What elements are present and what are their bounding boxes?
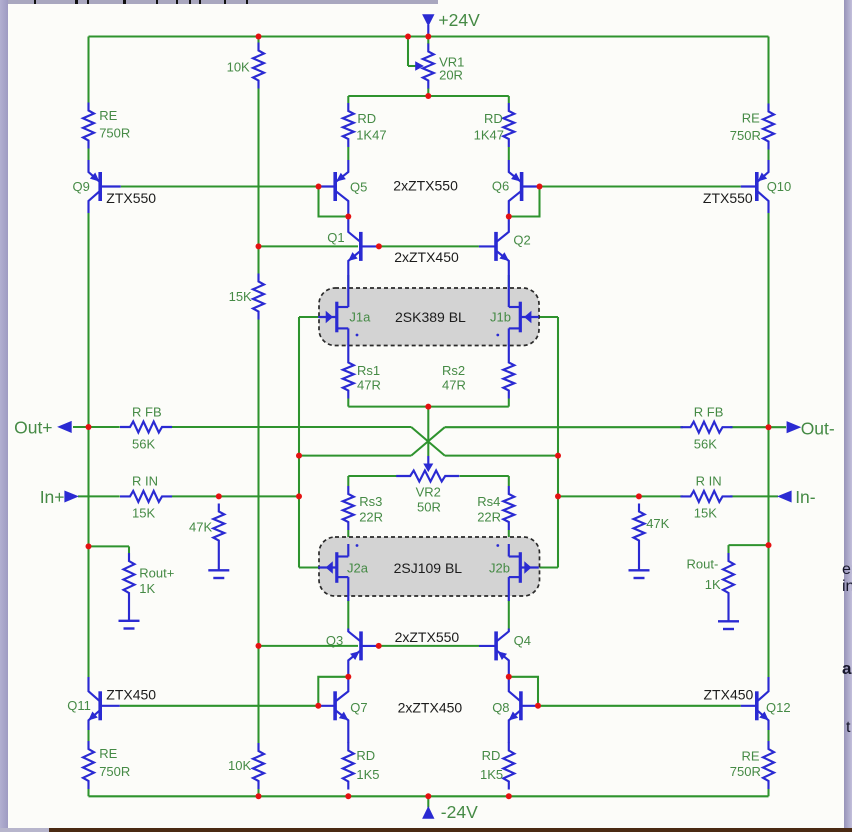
node Q4 emitter / Q8 bbox=[506, 674, 512, 680]
wire VR2 left corner down to Rs3 bbox=[347, 476, 349, 486]
wire VR1 top stub bbox=[427, 37, 429, 45]
wire Rout- down bbox=[727, 545, 729, 553]
resistor R FB 56K right bbox=[681, 422, 733, 433]
wire J2b gate bbox=[539, 566, 559, 568]
svg-text:Q2: Q2 bbox=[513, 233, 530, 248]
svg-text:ZTX450: ZTX450 bbox=[704, 687, 754, 703]
node Rs rail center bbox=[425, 404, 431, 410]
wire J1b gate bbox=[539, 316, 559, 318]
node bottom rail / -24V bbox=[425, 793, 431, 799]
svg-text:Q7: Q7 bbox=[350, 700, 367, 715]
wire Q1 emitter to J1a bbox=[347, 275, 349, 290]
svg-text:Q10: Q10 bbox=[767, 179, 792, 194]
wire gate column right x=558 bbox=[557, 317, 559, 568]
resistor Rs3 22R bbox=[343, 486, 354, 530]
wire Q11 base to Q7 base bbox=[120, 705, 319, 707]
node rail2 / VR1 bottom bbox=[425, 93, 431, 99]
svg-text:47R: 47R bbox=[442, 378, 466, 393]
ground 47K left bbox=[208, 569, 229, 571]
resistor Rout- 1K bbox=[723, 553, 734, 601]
wire right rail RE-Q10 bbox=[767, 150, 769, 161]
svg-text:Rout-: Rout- bbox=[687, 557, 719, 572]
wire bottom -24V rail bbox=[89, 795, 769, 797]
wire RD-R top stub bbox=[508, 96, 510, 103]
svg-text:1K: 1K bbox=[139, 581, 155, 596]
svg-text:2xZTX550: 2xZTX550 bbox=[395, 629, 460, 645]
svg-text:20R: 20R bbox=[439, 68, 463, 83]
wire left rail Q9-Out+ bbox=[87, 213, 89, 427]
J1a substrate dot bbox=[356, 334, 359, 337]
svg-text:Q11: Q11 bbox=[67, 698, 91, 713]
potentiometer VR1 20R bbox=[423, 44, 434, 89]
svg-text:10K: 10K bbox=[227, 60, 250, 75]
svg-text:R IN: R IN bbox=[696, 474, 722, 489]
wire junction to 15K bbox=[257, 246, 259, 273]
node Q3 base bbox=[376, 643, 382, 649]
wire right rail upper bbox=[767, 37, 769, 104]
resistor RE 750R top-left bbox=[83, 103, 94, 149]
potentiometer VR2 50R bbox=[396, 471, 459, 482]
wire left rail Out+ - Rout+ bbox=[87, 427, 89, 546]
svg-text:+24V: +24V bbox=[438, 10, 480, 30]
node In- / 47K bbox=[636, 493, 642, 499]
port arrow In- bbox=[778, 491, 792, 502]
JFET J2b bbox=[519, 552, 522, 583]
wire RFB right to Out- bbox=[730, 426, 786, 428]
svg-text:Q6: Q6 bbox=[492, 179, 509, 194]
wire J2a gate bbox=[299, 566, 319, 568]
resistor 10K bottom bbox=[253, 743, 264, 789]
svg-text:15K: 15K bbox=[694, 506, 717, 521]
wire VR2 right corner down to Rs4 bbox=[508, 476, 510, 486]
node In+ / 47K bbox=[216, 493, 222, 499]
node Q6 base bbox=[537, 184, 543, 190]
wire VR1 wiper horizontal bbox=[408, 65, 417, 67]
node bottom rail / RD left bbox=[345, 793, 351, 799]
svg-text:750R: 750R bbox=[730, 128, 761, 143]
wire crossover to left gate column bbox=[299, 455, 411, 457]
svg-text:47R: 47R bbox=[357, 378, 381, 393]
svg-text:Q12: Q12 bbox=[766, 700, 791, 715]
wire RD-L top stub bbox=[347, 96, 349, 103]
svg-text:2xZTX450: 2xZTX450 bbox=[398, 700, 463, 716]
wire RFB to crossover bbox=[172, 426, 412, 428]
svg-text:R FB: R FB bbox=[132, 405, 162, 420]
VR2 wiper stem blue bbox=[427, 456, 429, 465]
svg-text:RD: RD bbox=[484, 111, 503, 126]
wire 15K to Q3 base junction bbox=[257, 320, 259, 646]
wire crossover diagonal 2 bbox=[411, 427, 445, 455]
wire crossover diagonal 1 bbox=[411, 427, 445, 456]
wire center Rs-rail to VR2 wiper bbox=[427, 407, 429, 456]
wire 10K to Q1 base junction bbox=[257, 89, 259, 247]
svg-text:47K: 47K bbox=[646, 516, 669, 531]
svg-text:J2a: J2a bbox=[347, 561, 369, 576]
wire RIN right to In- bbox=[730, 495, 778, 497]
svg-text:Rs2: Rs2 bbox=[442, 363, 465, 378]
svg-text:15K: 15K bbox=[132, 506, 155, 521]
wire J1b source lead bbox=[508, 328, 510, 354]
svg-text:Rs4: Rs4 bbox=[477, 494, 500, 509]
svg-text:RE: RE bbox=[99, 746, 117, 761]
resistor 15K bbox=[253, 274, 264, 320]
wire VR1 wiper vertical bbox=[407, 37, 409, 67]
svg-text:2SK389 BL: 2SK389 BL bbox=[395, 309, 466, 325]
resistor RD 1K5 right bbox=[503, 743, 514, 790]
svg-text:ZTX450: ZTX450 bbox=[106, 687, 156, 703]
wire Q1-Q2 base line bbox=[379, 245, 479, 247]
JFET J2a bbox=[335, 552, 338, 583]
svg-text:Out+: Out+ bbox=[14, 418, 52, 438]
transistor Q9 ZTX550 bbox=[98, 172, 102, 201]
transistor Q3 ZTX550 bbox=[359, 631, 363, 660]
svg-text:Q4: Q4 bbox=[514, 633, 531, 648]
svg-text:1K5: 1K5 bbox=[356, 767, 379, 782]
node top rail / 10K bbox=[256, 34, 262, 40]
wire J1a source lead bbox=[347, 328, 349, 354]
port arrow Out- bbox=[787, 422, 801, 433]
wire J1b drain lead bbox=[508, 276, 510, 307]
svg-text:1K47: 1K47 bbox=[474, 128, 504, 143]
svg-text:In-: In- bbox=[795, 487, 816, 507]
wire RD-L to Q5 bbox=[347, 147, 349, 160]
node Q1 base bbox=[376, 243, 382, 249]
JFET J1a bbox=[335, 302, 338, 333]
dual JFET package 2SJ109 box bbox=[319, 537, 540, 596]
wire Rout+ branch bbox=[89, 545, 130, 547]
wire left rail upper bbox=[87, 37, 89, 103]
resistor RE 750R bottom-left bbox=[83, 741, 94, 789]
wire Q6 base-collector loop bbox=[509, 187, 540, 217]
wire Q2 emitter to J1b bbox=[508, 275, 510, 290]
node Q7 base bbox=[315, 703, 321, 709]
svg-text:RE: RE bbox=[742, 749, 760, 764]
wire Q8 base to Q12 base bbox=[538, 705, 741, 707]
wire gate column left x=299 bbox=[298, 317, 300, 568]
wire Q3-Q4 base line bbox=[379, 645, 479, 647]
wire Q5 base-collector loop bbox=[319, 187, 349, 217]
svg-text:J2b: J2b bbox=[489, 561, 510, 576]
wire -24V stub bbox=[427, 796, 429, 807]
J2a substrate dot bbox=[356, 544, 359, 547]
wire right rail Rout- - Q12 bbox=[767, 545, 769, 677]
resistor R IN 15K left bbox=[120, 491, 172, 502]
svg-text:Q5: Q5 bbox=[350, 180, 367, 195]
node crossover left bbox=[296, 453, 302, 459]
wire gate column right to RIN right bbox=[558, 495, 683, 497]
transistor Q10 ZTX550 bbox=[755, 172, 759, 201]
node Q5 base bbox=[316, 184, 322, 190]
svg-text:1K: 1K bbox=[705, 577, 721, 592]
node top rail / VR1 bbox=[425, 34, 431, 40]
wire right rail Q10-Out- bbox=[767, 213, 769, 427]
wire Q3 base junction to 10K bottom bbox=[257, 646, 259, 743]
wire crossover to right gate column bbox=[445, 455, 558, 457]
svg-text:2SJ109 BL: 2SJ109 BL bbox=[394, 560, 463, 576]
svg-text:56K: 56K bbox=[694, 437, 717, 452]
svg-text:22R: 22R bbox=[477, 510, 501, 525]
port arrow Out+ bbox=[58, 421, 72, 432]
node Q6 collector / Q2 bbox=[506, 214, 512, 220]
transistor Q2 ZTX450 bbox=[494, 232, 498, 261]
resistor R FB 56K left bbox=[120, 422, 172, 433]
svg-text:RD: RD bbox=[357, 111, 376, 126]
wire VR2 left bbox=[348, 475, 396, 477]
node bottom rail / 10K bbox=[256, 793, 262, 799]
svg-text:J1b: J1b bbox=[490, 310, 511, 325]
transistor Q12 ZTX450 bbox=[755, 691, 759, 720]
svg-text:15K: 15K bbox=[229, 289, 252, 304]
wire J1a gate bbox=[299, 316, 319, 318]
transistor Q8 ZTX450 bbox=[519, 691, 523, 720]
svg-text:RE: RE bbox=[99, 108, 117, 123]
svg-text:J1a: J1a bbox=[349, 310, 371, 325]
svg-text:56K: 56K bbox=[132, 437, 155, 452]
svg-text:Q1: Q1 bbox=[327, 230, 344, 245]
wire RIN to gate column left bbox=[172, 495, 299, 497]
svg-text:In+: In+ bbox=[40, 487, 65, 507]
resistor Rs2 47R bbox=[503, 355, 514, 399]
node crossover right bbox=[555, 453, 561, 459]
transistor Q4 ZTX550 bbox=[494, 631, 498, 660]
wire left rail lower bbox=[87, 789, 89, 796]
transistor Q7 ZTX450 bbox=[333, 691, 337, 720]
wire left rail Rout+ - Q11 bbox=[87, 546, 89, 677]
wire J2b drain lead bbox=[508, 577, 510, 601]
wire Q7 base-collector loop bbox=[318, 677, 348, 706]
wire right rail lower bbox=[767, 789, 769, 796]
svg-text:750R: 750R bbox=[99, 126, 130, 141]
wire J2a drain to Q3 bbox=[347, 600, 349, 629]
wire J2b drain to Q4 bbox=[508, 600, 510, 629]
svg-text:Out-: Out- bbox=[801, 419, 835, 439]
svg-text:RE: RE bbox=[742, 111, 760, 126]
resistor Rs1 47R bbox=[343, 355, 354, 399]
svg-text:-24V: -24V bbox=[441, 802, 478, 822]
svg-text:VR2: VR2 bbox=[416, 485, 441, 500]
wire Rout- branch bbox=[729, 544, 769, 546]
wire Rout+ down bbox=[128, 546, 130, 553]
wire Out+ to RFB bbox=[73, 426, 120, 428]
wire J2a drain lead bbox=[347, 577, 349, 601]
resistor 47K left bbox=[213, 504, 224, 549]
transistor Q5 ZTX550 bbox=[333, 172, 337, 201]
svg-text:R IN: R IN bbox=[132, 474, 158, 489]
wire RD-R to Q6 bbox=[508, 147, 510, 160]
svg-text:2xZTX450: 2xZTX450 bbox=[394, 249, 459, 265]
wire Q1 base line left bbox=[259, 245, 359, 247]
wire Q9 base to Q5 base bbox=[121, 185, 319, 187]
node 10K-15K / Q1 base line bbox=[256, 243, 262, 249]
wire J2b source lead bbox=[508, 544, 510, 557]
wire 10K top stub bbox=[257, 37, 259, 43]
resistor RE 750R top-right bbox=[763, 104, 774, 150]
svg-text:50R: 50R bbox=[417, 500, 441, 515]
wire left rail Q11-RE bbox=[87, 730, 89, 741]
resistor Rs4 22R bbox=[503, 486, 514, 530]
JFET J1b bbox=[519, 302, 522, 333]
resistor 10K top bbox=[253, 43, 264, 89]
wire Rs4 to J2b bbox=[508, 530, 510, 544]
transistor Q11 ZTX450 bbox=[98, 691, 102, 720]
resistor RD 1K47 left bbox=[343, 103, 354, 147]
transistor Q6 ZTX550 bbox=[520, 172, 524, 201]
node In- / gate column bbox=[555, 493, 561, 499]
svg-text:RD: RD bbox=[482, 748, 501, 763]
ground Rout- bbox=[718, 620, 739, 622]
svg-text:10K: 10K bbox=[228, 758, 251, 773]
node Q5 collector / Q1 bbox=[345, 214, 351, 220]
wire right rail Out- - Rout- bbox=[767, 427, 769, 545]
svg-text:ZTX550: ZTX550 bbox=[106, 190, 156, 206]
svg-text:1K5: 1K5 bbox=[480, 767, 503, 782]
svg-text:Rs1: Rs1 bbox=[357, 363, 380, 378]
resistor R IN 15K right bbox=[681, 491, 733, 502]
wire Q6 base to Q10 base bbox=[540, 185, 741, 187]
node Rout- / right rail bbox=[766, 542, 772, 548]
node In+ / gate column bbox=[296, 493, 302, 499]
node top rail / VR1 wiper bbox=[405, 34, 411, 40]
svg-text:Q8: Q8 bbox=[492, 700, 509, 715]
J1b substrate dot bbox=[496, 334, 499, 337]
power +24V triangle bbox=[423, 15, 434, 26]
node 15K-10K / Q3 base line bbox=[256, 643, 262, 649]
wire J2a source lead bbox=[347, 544, 349, 557]
node Q8 base bbox=[535, 703, 541, 709]
wire Rs2 to rail bbox=[508, 399, 510, 407]
wire Q8 base-collector loop bbox=[509, 677, 538, 706]
wire top +24V rail bbox=[89, 35, 769, 37]
VR2 wiper arrow bbox=[424, 464, 433, 472]
svg-text:R FB: R FB bbox=[694, 405, 724, 420]
resistor RD 1K47 right bbox=[503, 103, 514, 147]
svg-text:ZTX550: ZTX550 bbox=[703, 190, 753, 206]
resistor RE 750R bottom-right bbox=[763, 741, 774, 789]
wire In+ to RIN bbox=[78, 495, 120, 497]
svg-text:22R: 22R bbox=[359, 510, 383, 525]
svg-text:2xZTX550: 2xZTX550 bbox=[393, 178, 458, 194]
power -24V triangle bbox=[423, 807, 434, 819]
wire Rs1-Rs2 bottom rail bbox=[348, 406, 509, 408]
J2b substrate dot bbox=[496, 544, 499, 547]
transistor Q1 ZTX450 bbox=[359, 232, 363, 261]
ground 47K right bbox=[629, 569, 650, 571]
wire rail2 RD tops bbox=[348, 95, 509, 97]
resistor Rout+ 1K bbox=[124, 553, 135, 601]
node bottom rail / RD right bbox=[506, 793, 512, 799]
svg-text:Q3: Q3 bbox=[326, 633, 343, 648]
wire VR2 right bbox=[460, 475, 509, 477]
ground Rout+ bbox=[119, 620, 140, 622]
wire Q3 base line left bbox=[259, 645, 359, 647]
node Q3 emitter / Q7 bbox=[345, 674, 351, 680]
svg-text:750R: 750R bbox=[99, 764, 130, 779]
resistor 47K right bbox=[634, 504, 645, 549]
wire crossover to RFB right bbox=[445, 426, 683, 428]
wire right rail Q12-RE bbox=[767, 730, 769, 741]
svg-text:1K47: 1K47 bbox=[356, 128, 386, 143]
port arrow In+ bbox=[65, 491, 79, 502]
svg-text:Rout+: Rout+ bbox=[139, 566, 174, 581]
wire 10K bottom stub bbox=[257, 789, 259, 797]
resistor RD 1K5 left bbox=[343, 743, 354, 790]
wire VR1 bottom stub bbox=[427, 88, 429, 96]
wire Rs1 to rail bbox=[347, 399, 349, 407]
wire Rs3 to J2a bbox=[347, 530, 349, 544]
node Out- / right rail bbox=[766, 424, 772, 430]
svg-text:47K: 47K bbox=[189, 520, 212, 535]
wire left rail RE-Q9 bbox=[87, 149, 89, 161]
dual JFET package 2SK389 box bbox=[319, 288, 539, 346]
node Rout+ / left rail bbox=[86, 543, 92, 549]
svg-text:750R: 750R bbox=[730, 764, 761, 779]
svg-text:Rs3: Rs3 bbox=[359, 494, 382, 509]
wire J1a drain lead bbox=[347, 276, 349, 307]
VR1 wiper arrow bbox=[416, 62, 424, 70]
svg-text:RD: RD bbox=[356, 748, 375, 763]
svg-text:Q9: Q9 bbox=[73, 179, 90, 194]
node Out+ / left rail bbox=[86, 424, 92, 430]
